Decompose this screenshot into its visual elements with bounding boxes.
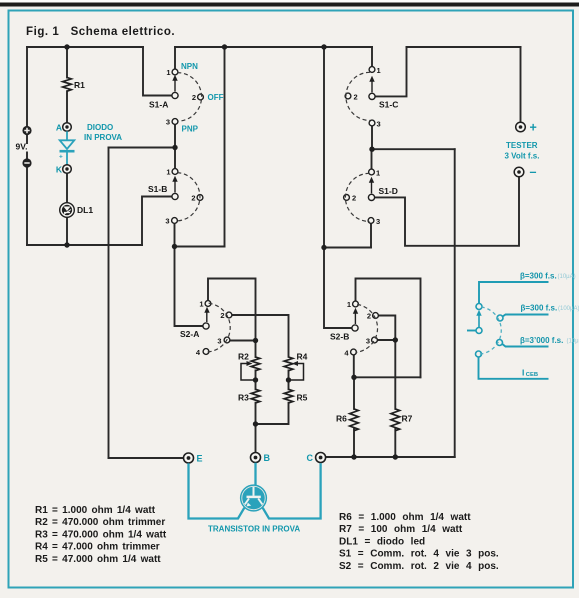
wire bottom right rail: [326, 456, 455, 458]
wire inset contact3 line: [502, 344, 548, 347]
wire node149 horizontal: [372, 148, 455, 150]
svg-text:CEB: CEB: [526, 372, 538, 378]
switch S1-A: [172, 69, 204, 124]
wire S2-A contact3 to junction: [230, 340, 256, 342]
svg-text:1: 1: [166, 68, 170, 77]
wire inset pole stub: [467, 330, 476, 332]
wire S1-A contact3 down: [174, 125, 176, 148]
wire S1-B contact1 up: [174, 148, 176, 169]
svg-text:NPN: NPN: [181, 62, 198, 71]
svg-text:–: –: [530, 165, 537, 179]
svg-text:R4 = 47.000 ohm trimmer: R4 = 47.000 ohm trimmer: [35, 542, 160, 553]
svg-text:2: 2: [367, 312, 371, 321]
svg-text:3: 3: [217, 337, 221, 346]
svg-text:3: 3: [377, 120, 381, 129]
wire DL1 to rail: [66, 217, 68, 245]
svg-text:A: A: [56, 123, 62, 133]
terminal E: [184, 453, 194, 463]
resistor R1: [63, 78, 72, 92]
svg-text:3 Volt f.s.: 3 Volt f.s.: [505, 152, 540, 161]
resistor R3: [251, 389, 260, 403]
wire K to DL1: [66, 173, 68, 202]
wire contact4 row: [354, 376, 421, 378]
wire S1-A contact1 up: [174, 47, 176, 69]
svg-text:TESTER: TESTER: [506, 141, 538, 150]
resistor R2: [251, 357, 260, 371]
battery 9V minus terminal: [22, 158, 31, 167]
svg-text:S1-B: S1-B: [148, 184, 167, 194]
wire S1-C contact1 up: [371, 47, 373, 66]
wire S1-B pole to rail: [142, 197, 172, 246]
svg-text:3: 3: [166, 118, 170, 127]
svg-text:R6 = 1.000 ohm 1/4 watt: R6 = 1.000 ohm 1/4 watt: [339, 512, 471, 523]
svg-text:2: 2: [354, 93, 358, 102]
wire R1 top: [66, 47, 68, 78]
svg-text:C: C: [307, 453, 314, 463]
svg-text:DL1: DL1: [77, 205, 93, 215]
resistor R6: [350, 409, 359, 431]
wire S1-D contact1 up: [371, 149, 373, 169]
svg-text:β=300 f.s.: β=300 f.s.: [521, 304, 558, 313]
LED DL1: [60, 203, 75, 218]
trimmer R4 wiper: [291, 364, 304, 381]
svg-text:B: B: [264, 453, 271, 463]
terminal A: [63, 123, 72, 132]
wire S1-B contact3 down: [174, 224, 176, 247]
wire top rail segment C: [407, 46, 521, 48]
switch S1-C: [345, 67, 375, 126]
wire inset contact2 line: [503, 315, 549, 317]
wire E loop: [109, 148, 184, 459]
inset contact 4: [476, 351, 482, 357]
wire top rail segment B: [175, 46, 372, 48]
wire R1 bottom to A: [66, 91, 68, 122]
terminal K: [63, 165, 72, 174]
svg-text:R7: R7: [402, 414, 413, 424]
inset switch pole: [476, 328, 482, 334]
svg-text:S2 = Comm. rot. 2 vie 4 pos.: S2 = Comm. rot. 2 vie 4 pos.: [339, 561, 499, 572]
svg-text:S1-A: S1-A: [149, 100, 168, 110]
svg-text:β=300 f.s.: β=300 f.s.: [520, 271, 557, 280]
legend right: [339, 512, 499, 572]
wire S2-A contact1 loop: [208, 279, 256, 338]
svg-text:R5 = 47.000 ohm 1/4 watt: R5 = 47.000 ohm 1/4 watt: [35, 554, 161, 565]
resistor R5: [284, 389, 293, 403]
wire R6 bottom: [353, 429, 355, 458]
wire R5 top: [288, 380, 290, 389]
svg-text:E: E: [197, 454, 203, 464]
svg-text:(100μA): (100μA): [558, 306, 579, 312]
inset contact 1: [476, 304, 482, 310]
svg-text:2: 2: [192, 93, 196, 102]
inset contact 2: [497, 315, 503, 321]
wire S2-B contact2 link: [379, 316, 396, 341]
svg-text:β=3’000 f.s.: β=3’000 f.s.: [520, 336, 563, 345]
svg-text:1: 1: [377, 66, 381, 75]
svg-text:K: K: [56, 165, 63, 175]
wire S2-B contact3 link: [378, 339, 396, 341]
resistor R4: [284, 357, 293, 371]
svg-text:R2: R2: [238, 352, 249, 362]
svg-text:9V.: 9V.: [16, 142, 28, 152]
svg-text:R7 = 100 ohm 1/4 watt: R7 = 100 ohm 1/4 watt: [339, 524, 463, 535]
svg-text:R2 = 470.000 ohm trimmer: R2 = 470.000 ohm trimmer: [35, 517, 165, 528]
wire bottom left rail: [27, 244, 142, 246]
svg-text:2: 2: [352, 194, 356, 203]
battery 9V plus terminal: [22, 126, 31, 135]
svg-text:S1-D: S1-D: [379, 186, 398, 196]
svg-text:DL1 = diodo led: DL1 = diodo led: [339, 536, 425, 547]
diode under test: [60, 131, 75, 164]
wire S1-D pole to tester minus: [375, 177, 519, 246]
wire junction to B: [255, 424, 257, 452]
svg-text:1: 1: [347, 300, 351, 309]
svg-text:IN PROVA: IN PROVA: [84, 133, 122, 142]
svg-text:1: 1: [199, 300, 203, 309]
svg-text:PNP: PNP: [182, 125, 199, 134]
svg-text:S1-C: S1-C: [379, 100, 398, 110]
legend left: [35, 505, 167, 565]
svg-text:2: 2: [220, 311, 224, 320]
svg-text:(10μA): (10μA): [558, 274, 576, 280]
wire inset contact4 line: [479, 357, 549, 379]
svg-text:3: 3: [165, 217, 169, 226]
wire R2 to junction: [255, 370, 257, 380]
tester minus terminal: [514, 167, 524, 177]
svg-text:R3: R3: [238, 393, 249, 403]
transistor under test leads: [189, 463, 321, 519]
wire junction to R7: [394, 340, 396, 409]
svg-text:R1 = 1.000 ohm 1/4 watt: R1 = 1.000 ohm 1/4 watt: [35, 505, 156, 516]
wire R3 bottom: [255, 403, 257, 424]
resistor R7: [391, 409, 400, 431]
svg-text:(10μ: (10μ: [567, 339, 579, 345]
wire R2 top: [255, 341, 257, 358]
wire E horizontal: [109, 457, 184, 459]
wire S2-B pole feed: [324, 248, 352, 329]
switch S1-D: [344, 169, 375, 223]
svg-text:DIODO: DIODO: [87, 123, 113, 132]
svg-text:S2-B: S2-B: [330, 332, 349, 342]
terminal B: [251, 453, 261, 463]
wire inset contact1 line: [479, 282, 549, 303]
inset dashed arc: [480, 307, 502, 354]
svg-text:TRANSISTOR IN PROVA: TRANSISTOR IN PROVA: [208, 525, 300, 534]
wire R7 bottom: [394, 429, 396, 458]
switch S2-A: [203, 301, 232, 355]
wire PNP node horizontal: [109, 147, 176, 149]
svg-text:R4: R4: [297, 352, 308, 362]
svg-text:R5: R5: [297, 393, 308, 403]
svg-text:S1 = Comm. rot. 4 vie 3 pos.: S1 = Comm. rot. 4 vie 3 pos.: [339, 549, 499, 560]
tester plus terminal: [516, 122, 526, 132]
wire R5 bottom to junction: [256, 403, 289, 424]
svg-text:R3 = 470.000 ohm 1/4 watt: R3 = 470.000 ohm 1/4 watt: [35, 529, 167, 540]
svg-text:3: 3: [366, 337, 370, 346]
inset contact 3: [497, 340, 503, 346]
wire R6 top: [353, 377, 355, 409]
svg-text:+: +: [59, 154, 63, 161]
wire R4 to junction: [288, 370, 290, 380]
wire S2-A pole feed: [175, 247, 203, 327]
svg-text:S2-A: S2-A: [180, 329, 199, 339]
wire battery plus to rail: [26, 47, 28, 126]
wire battery minus to bottom rail: [26, 167, 28, 245]
wire S1-D contact3 down: [370, 224, 372, 248]
svg-text:1: 1: [376, 169, 380, 178]
wire S2-A contact2 to R4: [232, 315, 289, 357]
terminal C: [316, 453, 326, 463]
switch S1-B: [172, 169, 203, 224]
svg-text:R6: R6: [336, 414, 347, 424]
svg-text:R1: R1: [74, 80, 85, 90]
svg-text:+: +: [530, 121, 537, 135]
wire junction row: [175, 246, 225, 248]
wire vertical x224: [224, 47, 226, 247]
svg-text:OFF: OFF: [208, 93, 224, 102]
wire S1-C contact3 down: [371, 126, 373, 149]
svg-text:Fig. 1 Schema elettrico.: Fig. 1 Schema elettrico.: [26, 26, 175, 38]
switch S2-B: [351, 301, 379, 355]
wire tester plus down: [520, 47, 522, 122]
wire long right vertical: [454, 149, 456, 457]
transistor U1 symbol: [240, 484, 267, 511]
wire R3 top: [255, 380, 257, 389]
wire S1-D bottom rail: [324, 247, 371, 249]
wire S1-A feed: [143, 47, 172, 96]
beta range selector inset: [467, 282, 549, 379]
svg-text:3: 3: [376, 217, 380, 226]
trimmer R2 wiper: [241, 364, 253, 381]
svg-text:I: I: [522, 368, 524, 378]
wire battery internal: [26, 135, 28, 159]
wire S1-C pole to tester plus: [375, 47, 406, 96]
wire S2-B contact1 loop: [356, 279, 421, 378]
wire vertical x324: [323, 47, 325, 248]
svg-text:2: 2: [191, 194, 195, 203]
svg-text:1: 1: [166, 168, 170, 177]
wire S2-B contact4 down: [353, 355, 355, 377]
wire top rail segment A: [27, 46, 143, 48]
